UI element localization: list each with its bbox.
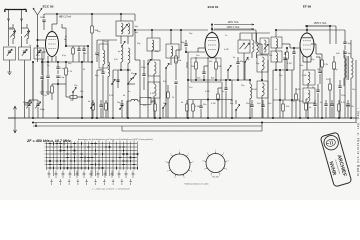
capacitor C28 15k xyxy=(346,103,350,105)
switch S5 xyxy=(127,83,128,84)
svg-text:2M: 2M xyxy=(230,100,233,102)
svg-text:2: 2 xyxy=(57,141,58,143)
svg-text:7: 7 xyxy=(204,169,205,171)
antenna A1 (FM dipole bar) xyxy=(5,9,27,12)
trimmer T3 box xyxy=(34,48,44,59)
wire col x88 xyxy=(87,46,89,62)
svg-text:7: 7 xyxy=(92,141,93,143)
svg-text:5n: 5n xyxy=(309,107,311,109)
switch S6 xyxy=(227,69,228,70)
wire x188 drop xyxy=(187,52,189,118)
wire h30 right xyxy=(276,29,345,31)
svg-text:5: 5 xyxy=(219,174,220,176)
svg-text:6: 6 xyxy=(174,177,175,179)
svg-text:Röhrenanschlüsse von unten: Röhrenanschlüsse von unten xyxy=(185,182,209,185)
svg-text:5n: 5n xyxy=(312,87,314,89)
coil L1 xyxy=(13,28,15,39)
switch S2 xyxy=(121,45,122,46)
capacitor C16 50p xyxy=(343,52,346,54)
wire h33 ech right xyxy=(240,32,270,34)
resistor R8 xyxy=(286,52,289,59)
capacitor C33 xyxy=(82,49,85,51)
wire x127 drop xyxy=(126,101,128,118)
svg-text:0,2M: 0,2M xyxy=(296,89,301,91)
capacitor C5 220p xyxy=(42,20,45,22)
resistor R20 xyxy=(329,84,332,90)
resistor R16 0,2M xyxy=(305,103,308,110)
wire x262 top xyxy=(256,43,262,45)
variable capacitor C19 500p xyxy=(36,104,39,106)
wire h70a xyxy=(113,69,131,71)
svg-text:9: 9 xyxy=(106,141,107,143)
capacitor C25 5n xyxy=(313,104,316,106)
svg-text:100V 2,7mA: 100V 2,7mA xyxy=(227,26,240,29)
resistor R9 2,2k xyxy=(321,60,324,67)
wire x66 top xyxy=(62,27,66,29)
resistor R15 1,2k xyxy=(282,104,285,111)
svg-text:50n: 50n xyxy=(257,103,260,105)
svg-text:9: 9 xyxy=(170,154,171,156)
node d1 xyxy=(261,79,263,81)
svg-text:10n: 10n xyxy=(189,87,192,89)
transformer TR4b xyxy=(303,88,315,103)
switch S7 xyxy=(244,61,245,62)
svg-text:1: 1 xyxy=(179,151,180,153)
capacitor C13 40p xyxy=(236,62,239,64)
svg-text:5: 5 xyxy=(184,177,185,179)
svg-text:3: 3 xyxy=(64,141,65,143)
capacitor C23 25n xyxy=(250,105,253,107)
wire x320 v xyxy=(319,57,321,70)
svg-text:ECC 85: ECC 85 xyxy=(43,5,54,9)
wire x222 down xyxy=(221,82,223,118)
wire x322 top xyxy=(316,53,322,55)
svg-text:2: 2 xyxy=(223,153,224,155)
resistor R1 1,7k xyxy=(65,68,68,75)
coil L12 xyxy=(252,40,254,52)
wire v-drops left xyxy=(32,62,34,118)
svg-text:2: 2 xyxy=(127,141,128,143)
switch S1 xyxy=(72,91,73,92)
wire V1 grid left xyxy=(38,39,46,41)
tube socket diagram B1 xyxy=(169,154,190,175)
transformer TR2b xyxy=(257,81,268,98)
svg-text:50k: 50k xyxy=(269,55,272,57)
capacitor C24 50n xyxy=(261,105,264,107)
wire bus3 xyxy=(33,125,262,127)
svg-text:0,3M: 0,3M xyxy=(205,91,210,93)
tube V1 ECC85 xyxy=(46,32,59,57)
svg-text:1,2k: 1,2k xyxy=(286,106,290,108)
switch S8 xyxy=(240,43,245,49)
svg-text:0,1M: 0,1M xyxy=(287,63,292,65)
switch table (band selector matrix) xyxy=(47,143,138,145)
svg-text:0,1M: 0,1M xyxy=(195,106,200,108)
resistor R11 xyxy=(105,103,108,110)
capacitor C26 1n xyxy=(324,104,327,106)
svg-text:30k: 30k xyxy=(209,61,212,63)
wire x181 xyxy=(180,30,182,50)
svg-text:EF 89: EF 89 xyxy=(303,5,312,9)
svg-text:¹ Ned. Ver. v. Historie v/d Ra: ¹ Ned. Ver. v. Historie v/d Radio xyxy=(356,108,360,177)
wire bus left ends xyxy=(35,123,37,127)
svg-text:1n: 1n xyxy=(275,89,277,91)
choke L15 xyxy=(131,99,138,101)
wire x300 down xyxy=(299,48,301,118)
svg-text:10: 10 xyxy=(112,141,114,143)
capacitor C1 trim xyxy=(10,31,15,38)
wire x208 down xyxy=(207,57,209,118)
svg-text:5k: 5k xyxy=(181,102,183,104)
svg-text:1,2k: 1,2k xyxy=(291,101,295,103)
node bus dots xyxy=(32,117,34,119)
svg-text:UKW: UKW xyxy=(9,29,14,31)
svg-text:4: 4 xyxy=(71,141,72,143)
variable capacitor C3 xyxy=(4,47,16,60)
tube V3 EF89 xyxy=(300,33,314,57)
svg-text:8k: 8k xyxy=(123,95,125,97)
coil L9 xyxy=(148,82,160,98)
svg-text:·|· = Lötöse =||= = Trimm: ·|· = Lötöse =||= = Trimmer ↕ = Tastenko… xyxy=(92,188,130,191)
resistor R12 1M xyxy=(154,104,157,111)
svg-text:5k: 5k xyxy=(345,65,347,67)
switch S10 xyxy=(111,83,112,84)
svg-text:4: 4 xyxy=(226,169,227,171)
svg-text:0,5M: 0,5M xyxy=(109,95,114,97)
resistor R4 20k xyxy=(91,26,94,33)
wire input mesh xyxy=(8,28,10,46)
capacitor C15 50p xyxy=(343,42,346,44)
box fm coils xyxy=(99,44,108,68)
transformer TR2a xyxy=(257,55,268,72)
variable capacitor C18 500p xyxy=(27,104,30,106)
svg-text:4,7k: 4,7k xyxy=(341,102,345,104)
variable capacitor C4 xyxy=(19,47,31,60)
wire v1 right rail xyxy=(65,28,67,46)
svg-text:0,1M: 0,1M xyxy=(150,93,155,95)
tube V3 pins xyxy=(302,56,304,62)
svg-text:800Ω: 800Ω xyxy=(252,89,257,91)
antenna A2 (AM dipole) xyxy=(33,8,42,28)
wire antenna feeders xyxy=(8,21,10,28)
svg-text:9: 9 xyxy=(207,153,208,155)
svg-text:2k: 2k xyxy=(172,97,174,99)
coil L2 xyxy=(27,28,29,39)
wire top bus drop xyxy=(134,14,136,21)
svg-text:8: 8 xyxy=(203,160,204,162)
wire bus2 xyxy=(33,122,357,124)
coil L10 xyxy=(250,84,252,98)
svg-text:HBV 2,7mA: HBV 2,7mA xyxy=(59,16,71,19)
resistor R5 80k xyxy=(175,56,178,63)
resistor R18 xyxy=(217,94,220,100)
tube socket diagram B2 xyxy=(206,154,225,173)
resistor R3 75k xyxy=(70,96,77,99)
box shield xyxy=(191,58,221,82)
wire x92 down xyxy=(91,62,93,118)
transformer TR4a ratio det xyxy=(303,70,315,85)
switch S3 xyxy=(147,63,148,64)
capacitor C10 xyxy=(174,82,177,84)
wire x292 down xyxy=(291,70,293,118)
capacitor C7 2,5p xyxy=(56,76,59,78)
wire mid rail xyxy=(42,61,88,63)
capacitor C6 1,5p xyxy=(56,67,59,69)
svg-text:7: 7 xyxy=(167,171,168,173)
svg-text:100V 7mA: 100V 7mA xyxy=(228,21,239,24)
resistor R6 70k xyxy=(195,62,198,69)
resistor R10 xyxy=(333,62,336,69)
capacitor C17 xyxy=(338,86,341,88)
resistor R7 90k xyxy=(215,62,218,69)
switch S12 xyxy=(25,103,27,105)
switch S4 xyxy=(165,67,166,68)
svg-text:10n: 10n xyxy=(196,55,199,57)
svg-text:60k: 60k xyxy=(230,103,233,105)
coil L6 osc xyxy=(147,38,160,51)
wire top bus xyxy=(44,13,135,15)
output coil L11 xyxy=(351,58,353,78)
svg-text:50n: 50n xyxy=(203,104,206,106)
wire am ant xyxy=(37,28,39,62)
svg-text:1: 1 xyxy=(50,141,51,143)
svg-text:47k: 47k xyxy=(326,79,329,81)
switch S13 xyxy=(162,107,163,108)
wire y99 rail xyxy=(188,99,232,101)
capacitor C2 trim xyxy=(24,31,29,38)
svg-text:1: 1 xyxy=(120,141,121,143)
wire V3 top xyxy=(306,26,308,33)
coil L13 xyxy=(257,42,259,53)
svg-text:0,1M: 0,1M xyxy=(302,75,307,77)
capacitor C12 xyxy=(202,72,205,74)
wire h40 xyxy=(97,39,117,41)
wire x345 xyxy=(344,30,346,38)
wire h80 xyxy=(188,79,244,81)
switch S11 xyxy=(132,77,133,78)
switch S9 xyxy=(245,43,250,49)
svg-text:3k: 3k xyxy=(83,69,85,71)
wire x280 down xyxy=(279,70,281,118)
svg-text:25n: 25n xyxy=(246,103,249,105)
svg-text:4: 4 xyxy=(191,171,192,173)
wire V2 anode top xyxy=(211,25,213,33)
box filter F1 xyxy=(140,98,151,105)
svg-text:2: 2 xyxy=(188,154,189,156)
node mid1 xyxy=(57,83,59,85)
capacitor C21 50p xyxy=(120,104,123,106)
node h30 xyxy=(134,29,136,31)
wire V2 grid xyxy=(198,47,205,49)
wire x140 xyxy=(139,60,141,118)
svg-text:150V 5,7mA: 150V 5,7mA xyxy=(314,22,327,25)
wire x268 edge xyxy=(267,60,269,118)
wire anno3 xyxy=(305,25,336,27)
wire V1 pins xyxy=(47,56,49,62)
resistor R19 xyxy=(167,92,170,98)
potentiometer P2 xyxy=(235,109,236,110)
svg-text:30k: 30k xyxy=(163,81,166,83)
ground arrow left xyxy=(14,106,16,133)
coil L4 xyxy=(121,47,123,62)
svg-text:4,5k: 4,5k xyxy=(114,59,118,61)
wire ef grid xyxy=(282,43,290,45)
capacitor C27 xyxy=(330,104,333,106)
transformer TR1 xyxy=(116,21,133,36)
wire anno1 xyxy=(214,24,254,26)
coil L14 xyxy=(264,40,266,52)
capacitor C8 xyxy=(40,77,43,79)
svg-text:0,1M: 0,1M xyxy=(211,103,216,105)
wire x232 down xyxy=(231,80,233,118)
svg-text:ECH 81: ECH 81 xyxy=(208,5,219,9)
coil L3 xyxy=(103,50,105,64)
capacitor C31 xyxy=(316,90,319,92)
resistor R13 0,1M xyxy=(186,104,189,111)
wire x330 mid xyxy=(329,26,331,44)
junction dots mid xyxy=(41,61,43,63)
svg-text:1n: 1n xyxy=(222,91,224,93)
potentiometer P1 5k xyxy=(92,103,95,110)
wire tr1 pins xyxy=(120,36,122,44)
coil L7 osc xyxy=(166,44,179,58)
svg-text:30n: 30n xyxy=(268,103,271,105)
coil L5 xyxy=(128,48,130,63)
resistor R21 xyxy=(295,94,298,100)
svg-text:1n: 1n xyxy=(128,91,130,93)
svg-text:EC 92: EC 92 xyxy=(212,177,219,179)
box detector block xyxy=(238,40,250,53)
capacitor C9 xyxy=(101,72,104,74)
svg-text:6: 6 xyxy=(85,141,86,143)
svg-text:Anordnung der Schalterleisten: Anordnung der Schalterleisten und Tasten… xyxy=(78,138,153,141)
svg-text:1M: 1M xyxy=(150,102,153,104)
svg-text:8: 8 xyxy=(166,162,167,164)
transformer TR3b xyxy=(271,51,282,62)
resistor R14 0,1M xyxy=(192,104,195,111)
wire c18 top xyxy=(29,99,38,101)
wire x128 down xyxy=(127,70,129,118)
svg-text:50n: 50n xyxy=(300,65,303,67)
wire x244 drop xyxy=(243,53,245,80)
tube V2 ECH81 xyxy=(205,33,219,58)
wire x118 drop xyxy=(117,70,119,88)
svg-text:1,5k: 1,5k xyxy=(43,95,47,97)
svg-text:3: 3 xyxy=(134,141,135,143)
svg-text:1n: 1n xyxy=(320,102,322,104)
svg-text:3: 3 xyxy=(227,160,228,162)
wire x97 xyxy=(96,70,98,118)
stamp ARCHIEF NVHR xyxy=(320,132,352,187)
capacitor C22 50n xyxy=(199,106,202,108)
svg-text:15k: 15k xyxy=(351,106,354,108)
svg-text:30n: 30n xyxy=(143,105,146,107)
resistor R17 4,7k xyxy=(338,104,341,111)
transformer TR5 xyxy=(344,58,346,78)
wire bus4 step xyxy=(122,123,262,132)
svg-text:1n: 1n xyxy=(225,35,227,37)
box det2 xyxy=(260,38,269,54)
capacitor C20 xyxy=(99,105,102,107)
capacitor C30 xyxy=(142,74,145,76)
capacitor C14 xyxy=(292,52,295,54)
capacitor C29 xyxy=(224,88,227,90)
svg-text:220p: 220p xyxy=(40,17,46,19)
wire drop x48 xyxy=(47,62,49,75)
wire x273 down xyxy=(272,70,274,118)
svg-text:5k: 5k xyxy=(88,101,90,103)
svg-text:0,2M: 0,2M xyxy=(299,101,304,103)
coil L8 xyxy=(148,60,160,76)
svg-text:0,6k: 0,6k xyxy=(336,53,340,55)
node top bus start xyxy=(56,13,58,15)
svg-text:1: 1 xyxy=(215,150,216,152)
resistor R22 xyxy=(72,48,75,54)
wire x135 down xyxy=(134,30,136,60)
wire x285 xyxy=(284,60,286,100)
transformer TR3a xyxy=(271,37,282,48)
capacitor C11 30p xyxy=(184,44,187,46)
wire x160 xyxy=(159,76,161,118)
resistor R2 xyxy=(51,86,54,93)
wire bus1 xyxy=(8,117,357,119)
svg-text:3: 3 xyxy=(192,162,193,164)
wire y99 rail2 xyxy=(273,99,300,101)
svg-text:5: 5 xyxy=(78,141,79,143)
wire x108 xyxy=(107,40,109,62)
wire anno2 xyxy=(214,28,254,30)
wire V1 anode to top xyxy=(51,24,53,32)
svg-text:8: 8 xyxy=(99,141,100,143)
capacitor C32 xyxy=(77,49,80,51)
wire right edge xyxy=(355,60,357,122)
svg-text:0,1M: 0,1M xyxy=(224,49,229,51)
svg-text:16n: 16n xyxy=(352,89,355,91)
